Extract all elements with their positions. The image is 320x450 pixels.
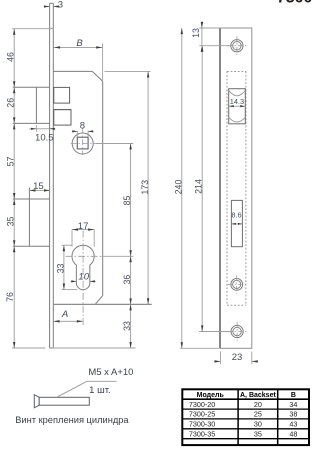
svg-text:1 шт.: 1 шт. — [89, 385, 110, 396]
label 1 sht — [89, 385, 110, 396]
svg-text:214: 214 — [193, 179, 203, 194]
svg-text:30: 30 — [254, 420, 262, 429]
svg-text:10: 10 — [78, 271, 89, 282]
deadbolt slot in faceplate — [231, 200, 242, 246]
svg-text:7300-20: 7300-20 — [189, 400, 215, 409]
lock body outline — [53, 71, 102, 304]
svg-text:33: 33 — [55, 264, 65, 274]
dimension text 35 — [6, 217, 16, 227]
svg-text:76: 76 — [5, 292, 15, 302]
svg-text:7300-35: 7300-35 — [189, 429, 215, 438]
dimension A (backset) — [54, 309, 83, 323]
svg-text:36: 36 — [122, 275, 132, 285]
label M5 x A+10 — [88, 367, 133, 378]
model table — [182, 389, 309, 445]
arrowheads 36 — [129, 256, 131, 304]
dimension 240 — [174, 28, 220, 348]
dimension 8.6 (deadbolt slot) — [231, 210, 242, 225]
svg-text:85: 85 — [122, 196, 132, 206]
dimension 10.5 — [29, 125, 55, 144]
dimension line 85-36-33 vertical — [130, 144, 132, 349]
svg-text:33: 33 — [122, 321, 132, 331]
hub follower square 8mm — [77, 131, 88, 149]
dimension 3 (plate thickness) — [44, 0, 63, 11]
extension line at top of chain — [12, 28, 53, 30]
top fixing screw hole — [228, 36, 247, 55]
svg-text:Модель: Модель — [197, 392, 225, 399]
dimension text 26 — [6, 98, 16, 108]
faceplate side view (left view plate) — [50, 3, 54, 348]
svg-text:20: 20 — [254, 400, 262, 409]
euro cylinder profile — [72, 245, 94, 289]
svg-text:8.6: 8.6 — [231, 210, 241, 219]
screw leader line — [58, 381, 117, 397]
latch bolt tail inside body — [54, 87, 71, 125]
svg-text:13: 13 — [191, 28, 201, 38]
svg-text:26: 26 — [6, 98, 16, 108]
svg-text:240: 240 — [174, 180, 184, 195]
arrowheads 33 bottom — [129, 304, 131, 348]
svg-text:17: 17 — [78, 221, 89, 232]
cylinder center lines — [66, 231, 102, 326]
dimension 214 — [193, 46, 231, 332]
svg-text:8: 8 — [80, 120, 85, 131]
extension line body bottom — [95, 303, 152, 305]
svg-text:Винт крепления цилиндра: Винт крепления цилиндра — [15, 415, 129, 425]
svg-text:A, Backset: A, Backset — [240, 392, 276, 399]
left dimension chain line — [13, 29, 15, 348]
svg-text:173: 173 — [140, 180, 150, 195]
title 7300 (cut off at top edge) — [277, 0, 313, 6]
svg-text:38: 38 — [289, 410, 297, 419]
dimension 33 (cylinder) — [55, 245, 77, 289]
faceplate front view outline — [220, 28, 252, 348]
svg-text:43: 43 — [289, 420, 297, 429]
dimension 173 — [140, 71, 150, 304]
dimension text 36 — [122, 275, 132, 285]
svg-text:35: 35 — [6, 217, 16, 227]
svg-text:7300: 7300 — [277, 0, 312, 6]
cylinder fixing screw drawing — [34, 395, 89, 408]
dimension text 46 — [6, 52, 16, 62]
caption screw — [15, 415, 129, 425]
dimension 17 — [72, 221, 94, 247]
arrowheads 85 — [129, 144, 131, 257]
dimension text 33 bottom — [122, 321, 132, 331]
svg-text:48: 48 — [289, 429, 297, 438]
extension line plate bottom — [12, 347, 136, 349]
svg-text:46: 46 — [6, 52, 16, 62]
dimension 13 — [191, 21, 231, 52]
bottom fixing screw hole — [228, 322, 247, 341]
dimension text 57 — [6, 157, 16, 167]
dimension 10 (cylinder stem) — [70, 271, 95, 282]
svg-text:M5 x A+10: M5 x A+10 — [88, 367, 133, 378]
svg-text:14.3: 14.3 — [230, 97, 244, 106]
latch cutout in faceplate — [229, 89, 246, 124]
dimension text 76 — [5, 292, 15, 302]
dimension 8 (hub square) — [72, 120, 94, 132]
svg-text:34: 34 — [289, 400, 297, 409]
extension cylinder center to 36-dim — [102, 255, 134, 257]
deadbolt protruding (side view) — [13, 188, 50, 247]
svg-text:35: 35 — [254, 429, 262, 438]
svg-text:25: 25 — [254, 410, 262, 419]
dimension B — [54, 38, 103, 80]
dimension 14.3 (latch cutout) — [229, 97, 246, 107]
svg-text:3: 3 — [58, 0, 63, 11]
svg-text:B: B — [76, 38, 83, 49]
svg-text:23: 23 — [232, 352, 243, 363]
hub center lines — [71, 128, 96, 155]
chain arrowheads 57 — [13, 123, 15, 199]
dimension text 85 — [122, 196, 132, 206]
extension line body top — [105, 70, 151, 72]
svg-text:7300-25: 7300-25 — [189, 410, 215, 419]
cylinder fixing screw hole — [228, 275, 246, 293]
svg-text:7300-30: 7300-30 — [189, 420, 215, 429]
chain arrowheads 26 — [13, 87, 15, 123]
chain arrowheads 46 — [13, 29, 15, 88]
latch bolt protruding head — [13, 87, 50, 123]
hub follower circle — [72, 133, 93, 154]
svg-text:15: 15 — [33, 181, 44, 192]
chain arrowheads 76 — [13, 246, 15, 348]
svg-text:10.5: 10.5 — [35, 133, 54, 144]
svg-text:B: B — [291, 392, 296, 399]
hidden lock body dashed outline — [227, 71, 246, 305]
svg-text:A: A — [61, 309, 68, 320]
chain arrowheads 35 — [13, 199, 15, 246]
dimension 23 — [214, 352, 258, 365]
extension hub center to 85-dim — [95, 143, 133, 145]
dimension 15 — [29, 181, 50, 192]
svg-text:57: 57 — [6, 157, 16, 167]
